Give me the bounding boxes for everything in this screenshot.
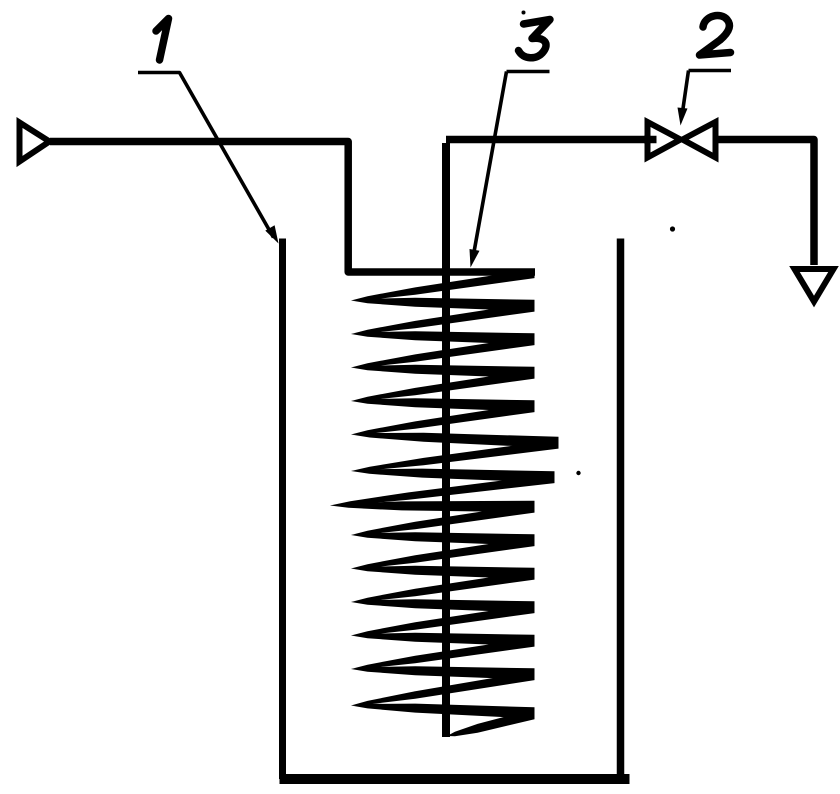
coil turn 3 diagonal <box>351 336 535 368</box>
drain flow arrow (open triangle, down) <box>795 269 834 302</box>
leader 3 arrowhead <box>470 249 480 268</box>
coil turn 1 diagonal <box>351 269 535 301</box>
coil turn 1 lower run <box>351 298 535 311</box>
leader line for label 1 <box>138 73 274 238</box>
coil turn 2 lower run <box>351 331 535 345</box>
leader 2 arrowhead <box>678 108 688 126</box>
stray ink speck right of coil <box>576 471 580 475</box>
vessel 1 right wall <box>617 239 625 780</box>
vessel 1 bottom <box>280 774 630 784</box>
coil turn 13 diagonal <box>351 671 535 706</box>
coil turn 10 lower run <box>351 599 535 613</box>
coil turn 8 diagonal <box>351 503 535 535</box>
coil turn 2 diagonal <box>351 302 535 334</box>
pipe stub entering valve left triangle <box>644 136 657 144</box>
inlet pipe wire: left horizontal, down, into coil top <box>50 142 535 273</box>
outlet vertical pipe through coil centre <box>442 143 450 737</box>
coil turn 7 lower run <box>330 501 535 512</box>
leader line for label 2 <box>683 71 732 113</box>
coil bottom end diagonal <box>447 709 535 736</box>
coil 3 (helical heat-exchange coil) <box>330 269 559 736</box>
coil turn 8 lower run <box>351 532 535 546</box>
outlet pipe wire: top horizontal to valve <box>446 136 656 144</box>
coil turn 4 diagonal <box>351 369 535 401</box>
coil turn 11 diagonal <box>351 604 535 636</box>
outlet pipe wire: valve to right corner, down to drain arrow <box>714 140 814 266</box>
coil turn 9 diagonal <box>351 537 535 569</box>
coil turn 10 diagonal <box>351 570 535 602</box>
coil turn 12 diagonal <box>351 637 535 669</box>
leader 1 arrowhead <box>265 225 278 243</box>
coil turn 4 lower run <box>351 398 535 412</box>
coil turn 6 lower run <box>351 469 555 483</box>
stray ink speck above label 3 <box>522 11 526 15</box>
coil turn 9 lower run <box>351 566 535 579</box>
leader line for label 3 <box>474 72 550 253</box>
label digit 2 <box>700 16 731 55</box>
coil turn 7 diagonal <box>330 474 555 506</box>
coil turn 5 lower run <box>351 433 559 448</box>
vessel 1 left wall <box>279 239 286 780</box>
coil turn 3 lower run <box>351 365 535 378</box>
coil turn 13 lower run <box>351 704 535 719</box>
valve 2 body right triangle <box>683 122 716 158</box>
coil turn 5 diagonal <box>351 403 535 435</box>
label digit 1 <box>156 19 169 61</box>
coil turn 6 diagonal <box>351 439 559 471</box>
valve 2 body left triangle <box>648 122 681 158</box>
coil turn 12 lower run <box>351 666 535 680</box>
inlet flow arrow (open triangle, left) <box>20 123 50 162</box>
label digit 3 <box>519 20 551 58</box>
coil turn 11 lower run <box>351 633 535 646</box>
stray ink speck near right wall top <box>670 226 675 231</box>
